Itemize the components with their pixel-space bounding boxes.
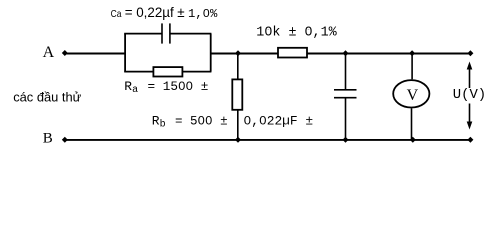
resistor Rb	[232, 79, 242, 109]
svg-text:R: R	[124, 79, 132, 94]
svg-text:0,022µF ±: 0,022µF ±	[244, 113, 314, 128]
junction node top of voltmeter	[409, 50, 415, 56]
label Ra = 1500 +/-	[124, 79, 208, 96]
wire bottom rail	[65, 139, 471, 141]
junction node Rb bottom	[235, 137, 241, 143]
wire top branch left	[124, 33, 162, 35]
label Rb = 500 +/-	[152, 113, 228, 130]
wire bottom branch left	[124, 71, 153, 73]
svg-text:Ca: Ca	[111, 9, 122, 20]
wire down to voltmeter	[411, 53, 413, 79]
wire 10k to right end	[307, 53, 470, 55]
label Ca = 0,22uf +/- 1,0%	[111, 5, 218, 21]
node top right end	[467, 50, 473, 56]
svg-text:1,0%: 1,0%	[188, 7, 218, 21]
wire right edge of parallel box	[210, 34, 212, 72]
voltmeter V	[393, 80, 429, 107]
svg-text:R: R	[152, 113, 160, 128]
junction node C2 bottom	[343, 137, 349, 143]
wire bottom branch right	[182, 71, 211, 73]
svg-text:A: A	[43, 44, 55, 61]
wire voltmeter to bottom rail	[411, 108, 413, 139]
svg-text:= 1500 ±: = 1500 ±	[148, 79, 209, 94]
junction node top of C2	[343, 50, 349, 56]
svg-text:a: a	[132, 85, 138, 96]
junction node voltmeter bottom	[410, 137, 416, 143]
resistor Ra	[153, 67, 182, 76]
wire junction to Rb	[237, 53, 239, 79]
svg-text:U(V): U(V)	[453, 87, 486, 103]
svg-text:10k ± 0,1%: 10k ± 0,1%	[256, 25, 337, 40]
svg-text:V: V	[407, 87, 419, 104]
node B	[43, 130, 68, 146]
svg-text:±: ±	[177, 5, 184, 20]
capacitor C2 0,022uF	[334, 90, 357, 98]
node A	[43, 44, 68, 61]
wire left edge of parallel box	[124, 34, 126, 72]
svg-text:các đầu thử: các đầu thử	[13, 89, 81, 104]
wire down to capacitor C2	[345, 53, 347, 90]
wire output to end	[211, 53, 279, 55]
svg-text:B: B	[43, 130, 53, 146]
wire top branch right	[170, 33, 212, 35]
zero glyph counters (mask)	[181, 12, 310, 122]
node bottom right end	[467, 137, 473, 143]
capacitor Ca	[162, 23, 170, 43]
wire Rb to bottom rail	[237, 110, 239, 140]
junction node top of Rb	[235, 50, 241, 56]
wire capacitor C2 to bottom rail	[345, 98, 347, 140]
svg-text:= 0,22µf: = 0,22µf	[125, 5, 174, 20]
wire A to network	[65, 53, 125, 55]
svg-text:b: b	[160, 118, 166, 130]
resistor R 10k	[278, 48, 307, 58]
arrow up U(V)	[467, 62, 473, 89]
arrow down U(V)	[467, 104, 473, 130]
